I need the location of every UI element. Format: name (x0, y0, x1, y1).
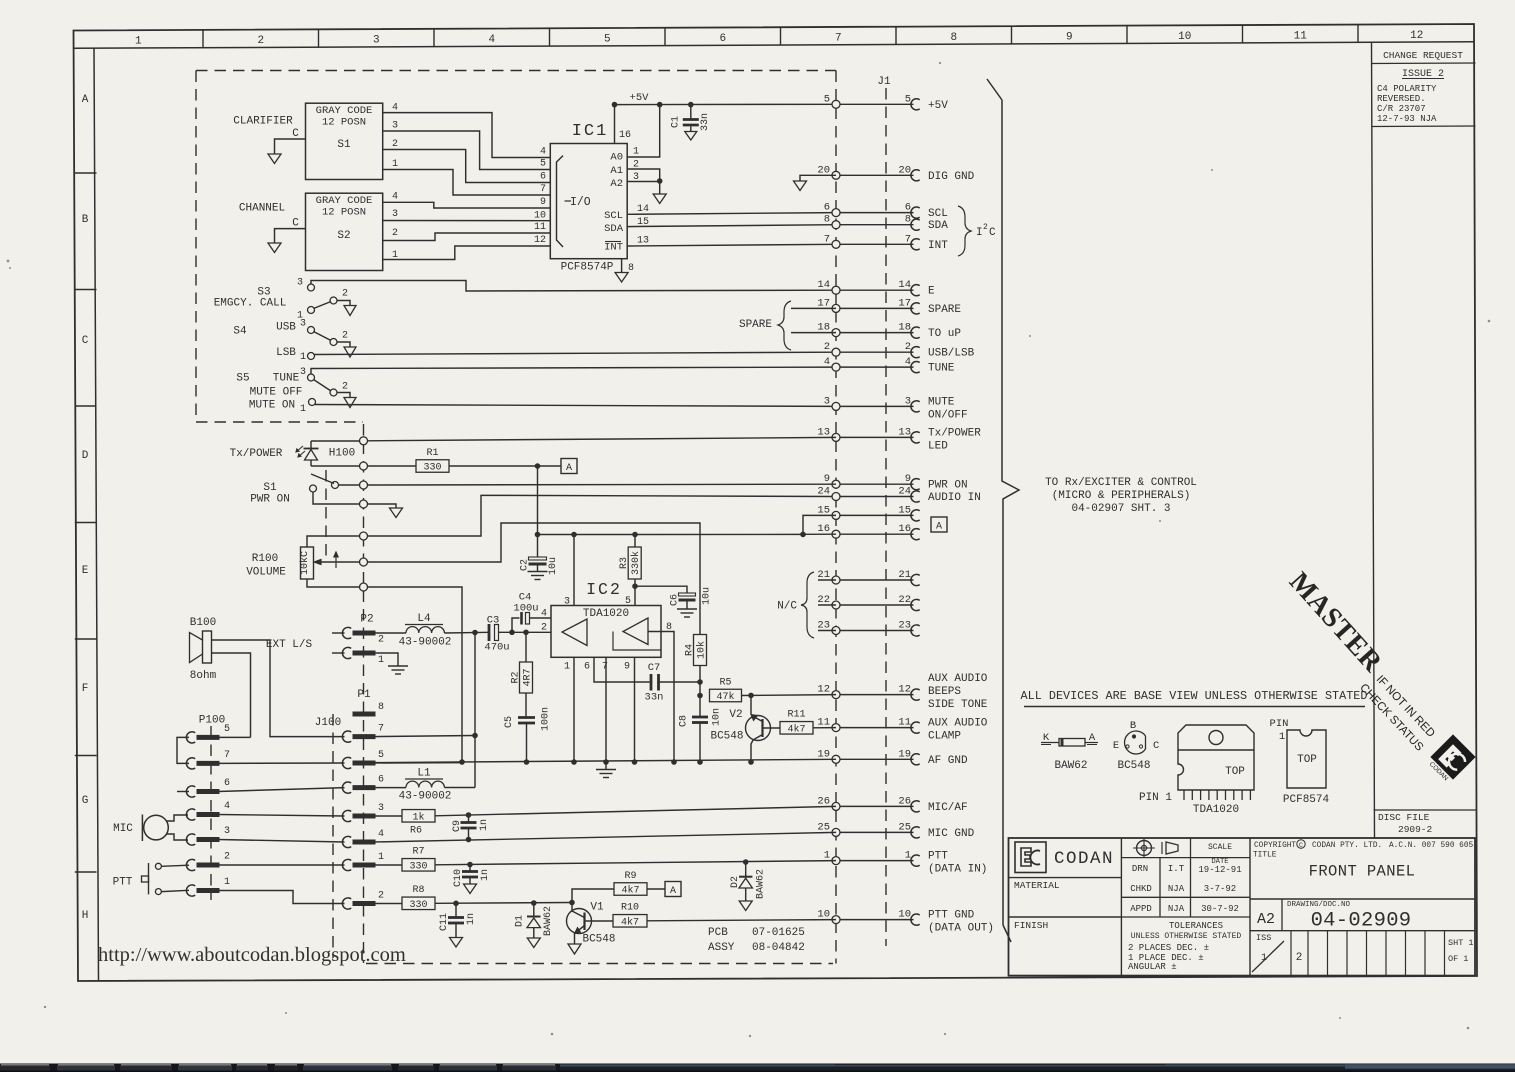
svg-text:R11: R11 (787, 710, 805, 721)
wire P100.3 to J100.4 (218, 840, 345, 843)
svg-text:1: 1 (564, 662, 570, 673)
ground S1 common (268, 154, 281, 164)
svg-text:6: 6 (905, 202, 911, 214)
P100 pin 3 (186, 834, 195, 845)
svg-text:BEEPS: BEEPS (928, 686, 961, 698)
wire R11 to J1 pin 11 (813, 727, 836, 729)
svg-text:6: 6 (719, 33, 726, 45)
audio amp IC2 TDA1020 box (551, 606, 661, 658)
svg-text:1: 1 (300, 352, 306, 363)
svg-text:H100: H100 (329, 448, 355, 460)
svg-text:4: 4 (378, 829, 384, 840)
svg-text:22: 22 (817, 594, 830, 606)
svg-text:10k: 10k (695, 641, 707, 659)
svg-text:N/C: N/C (777, 601, 797, 613)
J1 pin 3 (836, 405, 914, 407)
svg-text:14: 14 (637, 204, 649, 215)
svg-text:1: 1 (300, 404, 306, 415)
svg-text:BAW62: BAW62 (1054, 760, 1087, 772)
svg-text:1: 1 (905, 850, 911, 862)
wire H100 top rail to J1 pin13 (311, 440, 360, 442)
svg-text:1: 1 (378, 852, 384, 863)
J1 pin 25 (836, 831, 914, 833)
svg-text:D1: D1 (515, 915, 526, 927)
wire spare bracket to pin 18 (791, 332, 836, 334)
svg-text:A: A (566, 463, 572, 474)
svg-text:ANGULAR ±: ANGULAR ± (1128, 962, 1177, 972)
IC2 supply rail (538, 533, 804, 535)
svg-text:330: 330 (409, 900, 427, 911)
svg-text:C5: C5 (504, 716, 515, 728)
svg-text:C2: C2 (520, 559, 531, 571)
wire S5 pin1 to J1 pin 3 (MUTE) (315, 405, 836, 407)
svg-text:6: 6 (540, 172, 546, 183)
resistor R3 (628, 547, 641, 579)
svg-text:07-01625: 07-01625 (752, 927, 805, 939)
svg-text:4k7: 4k7 (621, 916, 639, 928)
svg-text:26: 26 (898, 795, 911, 807)
svg-text:4k7: 4k7 (621, 885, 639, 897)
svg-text:2: 2 (1296, 952, 1303, 964)
svg-text:CODAN: CODAN (1054, 849, 1114, 869)
svg-text:2: 2 (983, 223, 988, 232)
svg-text:6: 6 (378, 775, 384, 786)
svg-text:LSB: LSB (276, 347, 296, 359)
svg-text:24: 24 (898, 486, 911, 498)
svg-text:1k: 1k (412, 811, 424, 823)
svg-text:TOP: TOP (1297, 754, 1317, 766)
resistor R2 (525, 632, 527, 662)
AF ground rail (375, 759, 836, 762)
J1 pin 17 (836, 307, 914, 309)
svg-text:R2: R2 (511, 671, 522, 683)
svg-text:SCL: SCL (604, 210, 623, 222)
capacitor C8 (699, 710, 701, 717)
svg-text:D: D (82, 450, 89, 462)
svg-text:R100: R100 (252, 553, 278, 565)
svg-text:6: 6 (224, 778, 230, 789)
finish cell (1009, 916, 1122, 918)
ruler divider 1 (202, 30, 204, 48)
svg-text:PCB: PCB (708, 927, 728, 939)
svg-text:3-7-92: 3-7-92 (1204, 884, 1236, 894)
svg-text:SPARE: SPARE (928, 304, 961, 316)
I2C bracket (958, 206, 971, 256)
svg-text:20: 20 (817, 164, 830, 176)
svg-text:R5: R5 (719, 677, 731, 688)
bottom scan edge strip (0, 1064, 1515, 1072)
dashed front-panel boundary top edge (196, 70, 836, 72)
audio amp TDA1020 package (1178, 725, 1254, 790)
ground D2 (739, 901, 752, 911)
svg-text:C8: C8 (679, 715, 690, 727)
R100 wiper arrow (316, 561, 360, 563)
svg-text:BAW62: BAW62 (756, 869, 767, 899)
svg-text:TOP: TOP (1225, 766, 1245, 778)
svg-text:1: 1 (224, 877, 230, 888)
svg-text:10u: 10u (702, 587, 713, 605)
capacitor C11 (455, 903, 457, 917)
svg-text:4: 4 (392, 192, 398, 203)
svg-text:IC2: IC2 (586, 580, 622, 599)
J100/P1 pin 1 (342, 859, 351, 870)
svg-text:Tx/POWER: Tx/POWER (928, 427, 981, 439)
svg-text:22: 22 (898, 594, 911, 606)
IC1 I/O bracket (557, 156, 564, 247)
svg-text:2: 2 (392, 139, 398, 150)
wire C3 to IC2 pin 2 (499, 631, 552, 633)
P2 pin 1 (332, 652, 345, 654)
svg-text:4: 4 (392, 103, 398, 114)
svg-text:470u: 470u (484, 642, 509, 654)
svg-text:25: 25 (817, 821, 830, 833)
svg-text:3: 3 (378, 803, 384, 814)
wire R7 to J1 pin 1 (435, 861, 836, 865)
svg-text:43-90002: 43-90002 (399, 637, 452, 649)
drawing number row (1250, 898, 1475, 900)
svg-text:MIC GND: MIC GND (928, 828, 975, 840)
svg-text:+5V: +5V (630, 92, 650, 104)
J100/P1 pin 6 (342, 782, 351, 793)
svg-text:TDA1020: TDA1020 (583, 608, 629, 620)
dashed J100 vertical (332, 714, 334, 958)
capacitor C6 wire (635, 586, 687, 593)
wire R5 to J1 pin 12 (742, 694, 837, 697)
wire S5 pin3 to J1 pin 4 (TUNE) (311, 367, 836, 374)
svg-text:DRAWING/DOC.NO: DRAWING/DOC.NO (1287, 901, 1351, 909)
svg-text:7: 7 (905, 233, 911, 245)
ground D1 (527, 938, 540, 948)
svg-text:12-7-93 NJA: 12-7-93 NJA (1377, 114, 1437, 124)
svg-text:C: C (1153, 740, 1159, 752)
projection symbol (1137, 841, 1152, 856)
svg-text:C6: C6 (670, 594, 681, 606)
svg-text:R4: R4 (685, 644, 696, 656)
svg-text:CLAMP: CLAMP (928, 731, 961, 743)
svg-text:ON/OFF: ON/OFF (928, 409, 968, 421)
J1 pin 20 (836, 174, 914, 176)
ruler row divider (75, 405, 97, 407)
IC2 inner outline (613, 632, 661, 651)
svg-text:5: 5 (540, 159, 546, 170)
J1 pin 16 (836, 533, 914, 535)
svg-text:5: 5 (604, 34, 611, 46)
svg-text:SCL: SCL (928, 208, 948, 220)
svg-text:COPYRIGHT: COPYRIGHT (1254, 842, 1296, 850)
svg-text:8: 8 (378, 702, 384, 713)
title block verticals (1120, 838, 1122, 976)
svg-text:4: 4 (905, 356, 911, 368)
resistor R6 (374, 815, 403, 817)
svg-text:33n: 33n (700, 113, 711, 131)
J1 pin 10 (836, 919, 914, 921)
ruler divider 2 (318, 29, 320, 47)
ruler row divider (75, 755, 97, 757)
svg-text:2: 2 (378, 891, 384, 902)
wire P100.6 to J100.6 (218, 788, 345, 792)
svg-text:FRONT PANEL: FRONT PANEL (1309, 863, 1416, 881)
svg-text:12: 12 (817, 684, 830, 696)
svg-text:SDA: SDA (928, 220, 948, 232)
svg-text:9: 9 (824, 473, 830, 485)
svg-text:S4: S4 (233, 326, 247, 338)
wire R1 to A node (449, 465, 561, 467)
resistor R11 (780, 722, 813, 735)
svg-text:L1: L1 (417, 768, 431, 780)
J1 pin 18 (836, 332, 914, 334)
board edge connector circles (360, 437, 368, 445)
wire R10 to J1 pin 10 (647, 920, 836, 921)
svg-text:(MICRO & PERIPHERALS): (MICRO & PERIPHERALS) (1052, 490, 1191, 502)
J1 pin 2 (836, 351, 914, 353)
svg-text:04-02909: 04-02909 (1311, 910, 1412, 933)
dashed P100 vertical (210, 726, 212, 900)
svg-text:PTT: PTT (928, 851, 948, 863)
ground C1 (685, 132, 697, 141)
P100 pin 2 (186, 859, 195, 870)
earth ground P2 (388, 665, 408, 667)
svg-text:R7: R7 (412, 847, 424, 858)
capacitor C5 (525, 693, 527, 717)
svg-text:S1: S1 (337, 139, 351, 151)
capacitor C10 (469, 865, 471, 872)
svg-text:S5: S5 (236, 373, 249, 385)
S4 lever (314, 332, 332, 341)
svg-text:1: 1 (633, 147, 639, 158)
svg-text:R6: R6 (410, 826, 422, 837)
svg-text:EMGCY. CALL: EMGCY. CALL (214, 298, 287, 310)
svg-text:C11: C11 (439, 913, 450, 931)
svg-text:TOLERANCES: TOLERANCES (1169, 921, 1223, 931)
resistor R1 (416, 460, 449, 473)
svg-text:ASSY: ASSY (708, 942, 735, 954)
wire P1.6 to L1 (374, 787, 407, 789)
dashed boundary bottom edge (366, 963, 833, 965)
wire R6 to J1 pin 26 (435, 806, 836, 815)
svg-text:1n: 1n (466, 913, 477, 925)
wire J1 pin20 ground stub (800, 175, 836, 181)
svg-text:P1: P1 (357, 689, 371, 701)
svg-text:11: 11 (1294, 30, 1308, 42)
svg-text:4: 4 (824, 356, 830, 368)
P100 pin 5 (186, 732, 195, 743)
svg-text:PTT: PTT (113, 877, 133, 889)
svg-text:R9: R9 (624, 871, 636, 882)
svg-text:S2: S2 (337, 230, 350, 242)
svg-text:4: 4 (224, 801, 230, 812)
svg-text:(DATA OUT): (DATA OUT) (928, 923, 994, 935)
svg-text:ALL DEVICES ARE BASE VIEW UNLE: ALL DEVICES ARE BASE VIEW UNLESS OTHERWI… (1021, 689, 1368, 703)
svg-text:J1: J1 (877, 76, 891, 88)
wire R4 to R5 node (699, 666, 701, 711)
svg-text:3: 3 (824, 395, 830, 407)
left ruler band (94, 48, 99, 981)
ruler divider 10 (1242, 25, 1244, 43)
svg-text:15: 15 (898, 504, 911, 516)
svg-text:12 POSN: 12 POSN (322, 207, 366, 219)
ground C10 (464, 884, 477, 894)
svg-text:AF GND: AF GND (928, 755, 968, 767)
svg-text:8: 8 (905, 214, 911, 226)
J1 pin 19 (836, 758, 914, 760)
dashed boundary step (196, 421, 363, 423)
svg-text:IC1: IC1 (572, 122, 609, 141)
svg-text:CHANNEL: CHANNEL (239, 203, 285, 215)
svg-text:SIDE TONE: SIDE TONE (928, 699, 988, 711)
svg-text:DIG GND: DIG GND (928, 171, 975, 183)
ruler divider 7 (895, 27, 897, 45)
svg-text:6: 6 (584, 662, 590, 673)
svg-text:7: 7 (378, 724, 384, 735)
wire P100.2 to J100.1 (218, 864, 345, 866)
svg-text:16: 16 (898, 523, 911, 535)
svg-text:13: 13 (637, 236, 649, 247)
svg-text:PIN: PIN (1270, 718, 1289, 730)
P2 pin 2 (332, 632, 345, 634)
V2 base wire to R11 (763, 727, 781, 729)
svg-text:FINISH: FINISH (1014, 920, 1048, 931)
ground S1 (390, 508, 403, 518)
wire S4 pin1 to J1 pin 2 (USB/LSB) (314, 352, 836, 354)
svg-text:PIN 1: PIN 1 (1139, 792, 1172, 804)
svg-text:330: 330 (423, 463, 441, 474)
svg-text:CLARIFIER: CLARIFIER (233, 116, 293, 128)
IC2 amp triangle 2 (623, 618, 648, 645)
svg-text:G: G (82, 795, 89, 807)
J1 pin 15 (836, 514, 914, 516)
svg-text:http://www.aboutcodan.blogspot: http://www.aboutcodan.blogspot.com (98, 944, 406, 966)
tag box A after R1 (561, 459, 577, 474)
svg-text:2: 2 (905, 341, 911, 353)
svg-text:1: 1 (392, 159, 398, 170)
wire P100.4 to J100.3 (218, 815, 345, 817)
ruler row divider (75, 871, 97, 873)
svg-text:14: 14 (898, 279, 911, 291)
svg-text:INT: INT (928, 240, 948, 252)
svg-text:GRAY CODE: GRAY CODE (316, 195, 373, 207)
capacitor C1 (690, 105, 692, 119)
svg-text:10: 10 (817, 909, 830, 921)
P2 pin1 earth wire (374, 653, 399, 666)
wire S3 pin3 to J1 pin 14 (E) (311, 281, 836, 292)
resistor R9 (572, 889, 614, 903)
dashed boundary mid vertical (board edge with connector circles) (363, 424, 365, 963)
svg-text:330k: 330k (630, 551, 642, 575)
ruler divider 8 (1011, 26, 1013, 44)
svg-text:R10: R10 (621, 903, 639, 914)
svg-text:MUTE ON: MUTE ON (249, 400, 295, 412)
svg-text:C/R 23707: C/R 23707 (1377, 104, 1426, 114)
capacitor C2 (529, 557, 547, 560)
wire P1.5 to ground rail (374, 762, 463, 764)
resistor R7 (374, 864, 403, 866)
svg-text:11: 11 (534, 222, 546, 233)
svg-text:7: 7 (602, 662, 608, 673)
output bus bracket to Rx/Exciter (987, 79, 1002, 100)
scan speckles (7, 260, 10, 263)
svg-text:30-7-92: 30-7-92 (1201, 904, 1239, 914)
svg-text:11: 11 (898, 717, 911, 729)
svg-text:R8: R8 (412, 885, 424, 896)
svg-text:13: 13 (817, 426, 830, 438)
svg-text:I/O: I/O (570, 196, 591, 209)
svg-text:DRN: DRN (1132, 864, 1148, 874)
switch S2 gray code box (306, 193, 383, 270)
svg-text:2: 2 (824, 341, 830, 353)
svg-text:2: 2 (392, 228, 398, 239)
IC2 amp triangle 1 (562, 619, 587, 646)
svg-text:17: 17 (898, 297, 911, 309)
ruler divider 5 (664, 28, 666, 46)
svg-text:23: 23 (817, 620, 830, 632)
svg-text:PWR ON: PWR ON (928, 480, 968, 492)
svg-text:GRAY CODE: GRAY CODE (316, 105, 373, 117)
svg-text:A2: A2 (1257, 911, 1275, 928)
svg-text:3: 3 (224, 826, 230, 837)
svg-text:23: 23 (898, 620, 911, 632)
svg-text:330: 330 (409, 861, 427, 872)
svg-text:SDA: SDA (604, 223, 624, 235)
wire R100 bottom to AF ground rail (368, 587, 463, 762)
svg-text:6: 6 (824, 202, 830, 214)
J1 pin 9 (836, 483, 914, 485)
svg-text:16: 16 (817, 523, 830, 535)
capacitor C6 (679, 593, 696, 596)
svg-text:10n: 10n (712, 708, 723, 726)
svg-text:4: 4 (488, 34, 495, 46)
J100/P1 pin 3 (342, 810, 351, 821)
svg-text:10u: 10u (548, 557, 559, 575)
svg-text:PCF8574P: PCF8574P (561, 262, 614, 274)
svg-text:TITLE: TITLE (1253, 852, 1277, 860)
svg-text:25: 25 (898, 821, 911, 833)
capacitor C9 (468, 815, 470, 822)
tag box A at pin 16 (931, 517, 947, 532)
svg-text:EXT L/S: EXT L/S (266, 639, 313, 651)
ruler divider 11 (1357, 25, 1359, 43)
dashed front-panel boundary left edge (195, 71, 197, 416)
svg-text:9: 9 (540, 197, 546, 208)
title block outline (1009, 838, 1476, 976)
svg-text:AUX AUDIO: AUX AUDIO (928, 718, 988, 730)
svg-text:TO Rx/EXCITER & CONTROL: TO Rx/EXCITER & CONTROL (1045, 477, 1197, 489)
P100 pin 6 (186, 786, 195, 797)
svg-text:12 POSN: 12 POSN (322, 117, 366, 129)
svg-text:CHANGE REQUEST: CHANGE REQUEST (1383, 50, 1463, 61)
TDA1020 pins (1183, 790, 1185, 800)
ground S2 common (268, 243, 281, 253)
earth ground on rail (605, 762, 607, 769)
svg-text:F: F (82, 683, 89, 695)
svg-text:B: B (1130, 720, 1136, 732)
svg-text:MUTE: MUTE (928, 396, 955, 408)
wire L4 to C3 (444, 631, 489, 634)
svg-text:CODAN PTY. LTD.: CODAN PTY. LTD. (1312, 842, 1382, 850)
svg-text:A.C.N. 007 590 605: A.C.N. 007 590 605 (1389, 842, 1474, 850)
svg-text:ISS: ISS (1256, 933, 1271, 943)
svg-text:7: 7 (835, 32, 842, 44)
svg-text:TDA1020: TDA1020 (1193, 804, 1239, 816)
ground A1/A2 (659, 181, 661, 194)
svg-text:L4: L4 (417, 613, 431, 625)
svg-text:NJA: NJA (1168, 884, 1185, 894)
svg-text:TO uP: TO uP (928, 328, 961, 340)
codan logo cell (1015, 842, 1046, 873)
svg-text:18: 18 (898, 322, 911, 334)
svg-text:19: 19 (817, 748, 830, 760)
svg-text:C: C (82, 335, 89, 347)
svg-text:7: 7 (224, 750, 230, 761)
